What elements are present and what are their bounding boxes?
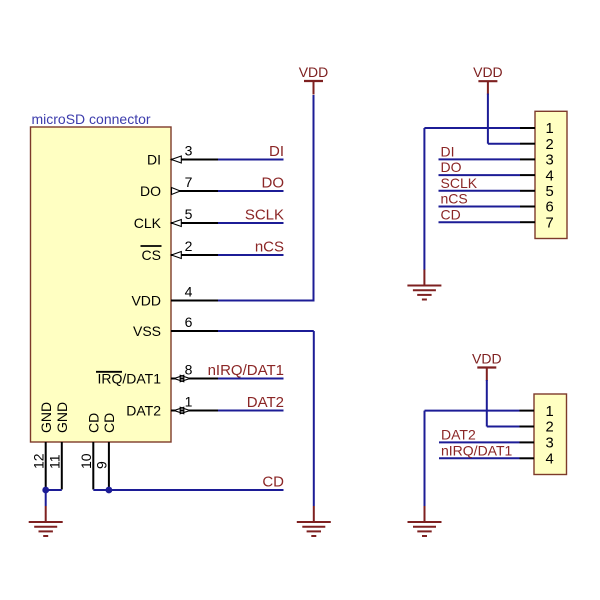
net label DI [269,143,284,160]
power VDD (main) [299,64,329,95]
svg-text:3: 3 [185,143,193,159]
wire GND rail (connector A) [423,128,425,270]
power VDD (connector B) [472,351,502,382]
svg-text:3: 3 [546,153,554,169]
svg-text:nCS: nCS [441,191,468,207]
svg-text:CD: CD [101,413,117,433]
svg-text:DI: DI [269,143,284,160]
wire net DO [218,190,284,192]
svg-text:DAT2: DAT2 [441,427,476,443]
svg-text:VDD: VDD [473,64,503,80]
wire VDD net (pin 4 to power rail) [218,95,314,302]
svg-text:CD: CD [441,206,461,222]
svg-text:5: 5 [546,184,554,200]
wire net nIRQ/DAT1 (connector B pin 4) [439,457,520,459]
net label CD (connector A) [441,206,461,222]
net label nIRQ/DAT1 [208,362,284,379]
svg-text:DI: DI [147,152,161,168]
pin 9 CD (bottom) [94,413,117,490]
microSD connector body [31,127,172,442]
net label nCS (connector A) [441,191,468,207]
svg-text:2: 2 [185,238,193,254]
net label nCS [255,238,284,255]
net label DI (connector A) [441,144,455,160]
svg-text:7: 7 [185,174,193,190]
connector 7-pin body [535,111,567,238]
svg-text:DAT2: DAT2 [247,394,284,411]
svg-text:1: 1 [546,404,554,420]
net label CD [262,473,284,490]
svg-text:DO: DO [441,159,462,175]
svg-text:5: 5 [185,206,193,222]
pin 2 CS [141,238,219,263]
svg-text:GND: GND [54,402,70,433]
svg-text:6: 6 [546,200,554,216]
svg-text:1: 1 [185,394,193,410]
net label SCLK [245,206,284,223]
pin 1 DAT2 [126,394,218,419]
wire net CD (connector A pin 7) [439,221,521,223]
wire net SCLK (connector A pin 5) [439,190,521,192]
pin 7 DO [140,174,218,199]
power VDD (connector A) [473,64,503,95]
svg-text:microSD connector: microSD connector [32,111,151,127]
svg-text:CD: CD [85,413,101,433]
wire GND to pin 1 (connector B) [425,410,520,412]
wire VDD to pin 2 (connector B) [487,380,520,427]
ground (below VSS) [297,506,331,536]
svg-text:SCLK: SCLK [441,175,478,191]
connector B pin 2 [520,420,554,436]
svg-text:12: 12 [30,453,46,469]
connector A pin 6 [520,200,554,216]
pin 11 GND (bottom) [47,402,70,490]
pin 5 CLK [134,206,218,231]
connector A pin 1 [520,121,554,137]
svg-text:DO: DO [140,183,161,199]
connector A pin 4 [520,168,554,184]
connector A pin 2 [520,137,554,153]
connector B pin 1 [520,404,554,420]
net label DAT2 [247,394,284,411]
wire GND link (pins 11,12) [46,490,62,506]
ground (connector A) [407,270,441,300]
pin 6 VSS [133,314,218,339]
connector B pin 3 [520,436,554,452]
svg-text:GND: GND [38,402,54,433]
net label DO [262,174,285,191]
svg-text:9: 9 [94,461,110,469]
svg-text:SCLK: SCLK [245,206,284,223]
svg-text:3: 3 [546,436,554,452]
wire GND to pin 1 (connector A) [424,127,520,129]
svg-text:VDD: VDD [131,293,161,309]
connector B pin 4 [520,452,554,468]
svg-text:DAT2: DAT2 [126,403,161,419]
wire VSS net (pin 6 to ground) [218,331,314,506]
svg-text:8: 8 [185,362,193,378]
net label DO (connector A) [441,159,462,175]
wire net nCS [218,254,284,256]
pin 8 IRQ/DAT1 [96,362,218,387]
wire net DI [218,159,284,161]
svg-text:DO: DO [262,174,285,191]
svg-text:11: 11 [47,454,63,469]
svg-text:nIRQ/DAT1: nIRQ/DAT1 [208,362,284,379]
net label SCLK (connector A) [441,175,478,191]
svg-text:DI: DI [441,144,455,160]
pin 10 CD (bottom) [78,413,101,490]
svg-text:CLK: CLK [134,215,162,231]
wire VDD to pin 2 (connector A) [488,94,520,144]
svg-text:1: 1 [546,121,554,137]
wire net SCLK [218,222,284,224]
net label nIRQ/DAT1 (connector B) [441,442,513,458]
svg-text:CD: CD [262,473,284,490]
junction (GND pins) [42,487,49,494]
net label DAT2 (connector B) [441,427,476,443]
wire net DO (connector A pin 4) [439,174,521,176]
wire net DI (connector A pin 3) [439,158,521,160]
wire net nCS (connector A pin 6) [439,206,521,208]
svg-text:CS: CS [142,247,161,263]
svg-text:10: 10 [78,453,94,469]
ground (below GND pins) [29,506,63,536]
wire net nIRQ/DAT1 [218,378,284,380]
wire GND rail (connector B) [424,411,426,506]
svg-text:IRQ/DAT1: IRQ/DAT1 [97,371,161,387]
svg-text:2: 2 [546,137,554,153]
svg-text:4: 4 [546,168,554,184]
svg-text:4: 4 [185,284,193,300]
svg-text:6: 6 [185,314,193,330]
ground (connector B) [408,506,442,536]
wire net DAT2 [218,410,284,412]
svg-text:nIRQ/DAT1: nIRQ/DAT1 [441,442,513,458]
svg-text:VDD: VDD [299,64,329,80]
pin 4 VDD [131,284,218,309]
svg-text:VDD: VDD [472,351,502,367]
connector 4-pin body [534,394,567,475]
svg-text:VSS: VSS [133,323,161,339]
svg-text:2: 2 [546,420,554,436]
svg-text:4: 4 [546,452,554,468]
connector A pin 5 [520,184,554,200]
svg-text:7: 7 [546,215,554,231]
connector A pin 3 [520,153,554,169]
connector A pin 7 [520,215,554,231]
pin 3 DI [147,143,218,168]
wire net DAT2 (connector B pin 3) [439,441,520,443]
junction (CD pins) [106,487,113,494]
svg-text:nCS: nCS [255,238,284,255]
pin 12 GND (bottom) [30,402,53,490]
wire net CD (pins 9,10) [93,489,283,491]
